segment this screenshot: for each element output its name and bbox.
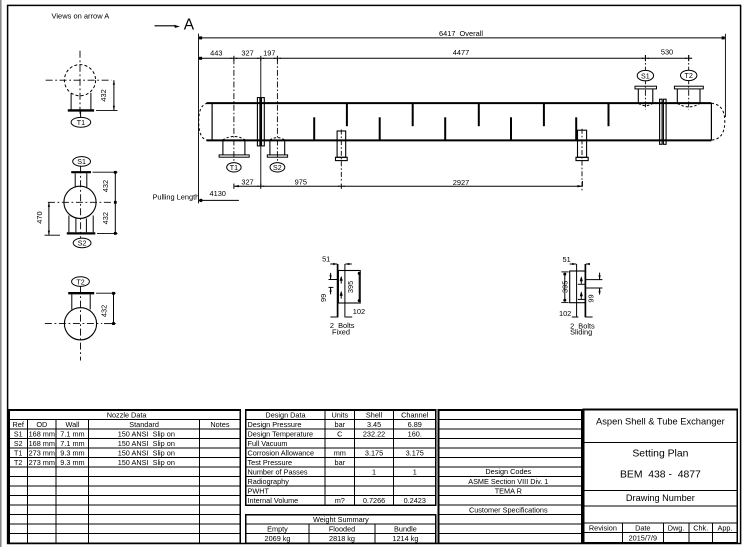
view T1: balloon [71, 117, 91, 127]
nozzle T2 penetration dashed arc [678, 103, 700, 107]
view T2: vertical centerline [80, 287, 82, 361]
sliding support detail: dim 51 [570, 263, 577, 265]
svg-text:Weight Summary: Weight Summary [313, 515, 369, 524]
nozzle T1 neck [222, 140, 224, 155]
svg-text:150 ANSI Slip on: 150 ANSI Slip on [118, 439, 175, 448]
svg-text:Chk.: Chk. [693, 523, 708, 532]
girth flange pair rear [660, 99, 663, 144]
view S1S2: circle [64, 186, 96, 218]
svg-text:ASME Section VIII Div. 1: ASME Section VIII Div. 1 [468, 477, 548, 486]
left channel head dashed arc [199, 103, 208, 140]
nozzle S1 flange plate [635, 86, 657, 89]
chain ticks [233, 56, 235, 61]
sliding support detail: dim 395 [564, 274, 566, 300]
view arrow A head [174, 25, 180, 28]
svg-text:Ref: Ref [13, 420, 25, 429]
svg-text:102: 102 [559, 309, 571, 318]
svg-text:99: 99 [587, 294, 596, 302]
view T1: vertical centerline [79, 51, 81, 116]
sliding saddle centerline [581, 129, 583, 192]
view T1: flange face (thick) [68, 109, 94, 111]
view S1S2: S1 balloon [73, 157, 91, 167]
svg-text:Number of Passes: Number of Passes [248, 467, 308, 476]
fixed support detail: dim 51 [330, 263, 337, 265]
svg-text:T1: T1 [77, 119, 85, 127]
view S1S2: S2 flange face (thick) [67, 232, 96, 234]
title block [584, 409, 738, 543]
flange centerline extension (solid) [260, 58, 262, 186]
svg-text:mm: mm [334, 448, 346, 457]
view T1: flange extension dash [96, 109, 118, 111]
svg-text:S2: S2 [14, 440, 23, 448]
svg-text:Design Temperature: Design Temperature [248, 429, 314, 438]
view T2: dim 432 line [113, 293, 115, 323]
sliding support detail: dim 99 marks [586, 279, 602, 281]
svg-text:2015/7/9: 2015/7/9 [629, 534, 657, 543]
svg-text:51: 51 [562, 255, 570, 264]
svg-text:3.175: 3.175 [365, 448, 383, 457]
nozzle T1 label balloon [227, 163, 241, 172]
svg-text:PWHT: PWHT [248, 486, 270, 495]
bottom chain right end tick [581, 181, 583, 187]
svg-text:4130: 4130 [209, 189, 225, 198]
svg-text:168 mm: 168 mm [29, 439, 55, 448]
svg-text:Internal Volume: Internal Volume [248, 496, 299, 505]
svg-text:S2: S2 [273, 164, 282, 172]
svg-text:Dwg.: Dwg. [668, 523, 685, 532]
nozzle S2 neck [269, 140, 271, 155]
dim 6417 Overall line [199, 37, 726, 39]
chain tick arrows [231, 58, 693, 59]
svg-text:C: C [337, 429, 342, 438]
svg-text:432: 432 [99, 89, 108, 101]
svg-text:2927: 2927 [453, 178, 469, 187]
svg-text:S1: S1 [14, 430, 23, 438]
view S1S2: S2 outer neck lines [68, 216, 70, 233]
bottom dim chain line (327/975/2927) [234, 185, 583, 187]
nozzle S1 penetration dashed arc [639, 103, 653, 105]
sliding support detail: web line (thick) [584, 264, 586, 317]
fixed support detail: dim 99 marks [329, 279, 338, 281]
svg-text:Date: Date [635, 523, 650, 532]
svg-text:7.1 mm: 7.1 mm [60, 439, 84, 448]
design data table [246, 410, 436, 505]
svg-text:197: 197 [263, 49, 275, 58]
view T1: dim 432 line [113, 80, 115, 110]
view T1: stem to balloon [80, 112, 82, 118]
nozzle T1 flange plate [219, 155, 249, 157]
fixed support detail: base plate rectangle [338, 271, 360, 304]
fixed support detail: bolt arrows [340, 277, 342, 283]
svg-text:Units: Units [331, 410, 348, 419]
dim chain line (443/327/197/4477/530) [199, 57, 692, 59]
nozzle data table [9, 410, 240, 543]
view T1: dashed circle [64, 65, 95, 96]
fixed support detail: web line (thick) [337, 264, 339, 317]
sliding support detail: bolt slots [580, 278, 582, 284]
svg-text:470: 470 [35, 211, 44, 223]
view T2: circle [64, 308, 96, 340]
svg-text:6.89: 6.89 [408, 420, 422, 429]
svg-text:Corrosion Allowance: Corrosion Allowance [248, 448, 315, 457]
svg-text:3.45: 3.45 [367, 420, 381, 429]
svg-text:S2: S2 [78, 240, 87, 248]
fixed support detail: dim 102 + feet [330, 316, 337, 318]
svg-text:Flooded: Flooded [329, 524, 355, 533]
svg-text:Pulling Length: Pulling Length [152, 193, 199, 202]
sliding saddle base plate [576, 157, 588, 160]
view S1S2: vertical centerline [80, 166, 82, 238]
svg-text:Radiography: Radiography [248, 477, 290, 486]
view S1S2: horizontal centerline [48, 201, 112, 203]
svg-text:395: 395 [561, 281, 570, 293]
svg-text:150 ANSI Slip on: 150 ANSI Slip on [118, 429, 175, 438]
dim 6417 end dots [199, 36, 202, 39]
svg-text:A: A [184, 16, 195, 33]
svg-text:1: 1 [413, 467, 417, 476]
baffles rising from bottom [314, 117, 576, 139]
sliding support detail: second line [576, 264, 578, 317]
view T1: nozzle neck lines [70, 93, 72, 109]
svg-text:432: 432 [101, 212, 110, 224]
svg-text:9.3 mm: 9.3 mm [60, 458, 84, 467]
view T2: neck lines [71, 295, 73, 310]
vessel shell bottom line [207, 139, 712, 141]
svg-text:Channel: Channel [401, 410, 429, 419]
svg-text:OD: OD [36, 420, 47, 429]
svg-text:BEM 438 - 4877: BEM 438 - 4877 [620, 470, 701, 481]
svg-text:TEMA R: TEMA R [495, 486, 522, 495]
svg-text:T1: T1 [14, 449, 22, 457]
design codes / customer spec table [439, 410, 582, 543]
bottom chain left arrow [234, 185, 239, 187]
svg-text:T2: T2 [14, 459, 22, 467]
svg-text:bar: bar [335, 420, 346, 429]
nozzle S1 neck [637, 89, 639, 103]
svg-text:51: 51 [322, 254, 330, 263]
nozzle T2 neck [676, 89, 678, 103]
left head tangent seam [211, 103, 213, 140]
svg-text:Design Pressure: Design Pressure [248, 420, 302, 429]
right rear head dashed arc [711, 103, 724, 140]
nozzle T2 label balloon [681, 70, 697, 80]
svg-text:Wall: Wall [65, 420, 79, 429]
svg-text:Setting Plan: Setting Plan [632, 449, 688, 460]
svg-text:Aspen Shell & Tube Exchanger: Aspen Shell & Tube Exchanger [596, 417, 725, 427]
svg-text:S1: S1 [77, 158, 86, 166]
fixed saddle base plate [336, 157, 348, 160]
view S1S2: S2 balloon [73, 238, 91, 248]
right head tangent seam [710, 103, 712, 140]
screen edge artifact [0, 0, 2, 547]
fixed support detail: second line [344, 264, 346, 317]
svg-text:160.: 160. [408, 429, 422, 438]
svg-text:Design Codes: Design Codes [485, 467, 531, 476]
svg-text:150 ANSI Slip on: 150 ANSI Slip on [118, 458, 175, 467]
nozzle S1 centerline [644, 55, 646, 110]
svg-text:168 mm: 168 mm [29, 429, 55, 438]
baffles hanging from top [347, 104, 609, 126]
view S1S2: dim 470 line [48, 202, 50, 235]
nozzle S2 label balloon [270, 163, 285, 172]
svg-text:Standard: Standard [129, 420, 159, 429]
svg-text:327: 327 [241, 178, 253, 187]
svg-text:App.: App. [717, 523, 732, 532]
svg-text:102: 102 [353, 307, 365, 316]
view T1: horizontal centerline [46, 79, 112, 81]
sliding support detail: base plate rectangle [570, 271, 586, 303]
svg-text:Revision: Revision [589, 523, 617, 532]
view T2: horizontal centerline [45, 323, 102, 325]
svg-text:7.1 mm: 7.1 mm [60, 429, 84, 438]
svg-text:443: 443 [210, 49, 222, 58]
right overall extension line [724, 34, 726, 117]
svg-text:Bundle: Bundle [394, 524, 417, 533]
svg-text:327: 327 [241, 49, 253, 58]
left overall extension line [198, 34, 200, 204]
view S1S2: S1 neck lines [74, 173, 76, 187]
fixed saddle body [337, 131, 346, 157]
svg-text:150 ANSI Slip on: 150 ANSI Slip on [118, 448, 175, 457]
svg-text:232.22: 232.22 [363, 429, 385, 438]
nozzle S2 penetration dashed arc [270, 138, 285, 140]
vessel shell top line [207, 102, 712, 104]
pulling length dot [199, 199, 202, 202]
svg-text:Empty: Empty [267, 524, 288, 533]
svg-text:1: 1 [372, 467, 376, 476]
svg-text:432: 432 [100, 305, 109, 317]
svg-text:99: 99 [319, 294, 328, 302]
svg-text:bar: bar [335, 458, 346, 467]
svg-text:0.2423: 0.2423 [404, 496, 426, 505]
svg-text:Customer Specifications: Customer Specifications [469, 505, 548, 514]
svg-text:Test Pressure: Test Pressure [248, 458, 293, 467]
svg-text:Fixed: Fixed [332, 327, 350, 336]
fixed saddle centerline [340, 130, 342, 182]
svg-text:m?: m? [335, 496, 345, 505]
view S1S2: S1 flange face (thick) [71, 171, 91, 173]
view T2: balloon [72, 277, 90, 287]
svg-text:9.3 mm: 9.3 mm [60, 448, 84, 457]
svg-text:Drawing Number: Drawing Number [626, 493, 695, 503]
svg-text:975: 975 [295, 177, 307, 186]
svg-text:Views on arrow A: Views on arrow A [52, 12, 110, 21]
svg-text:3.175: 3.175 [406, 448, 424, 457]
nozzle S1 label balloon [637, 70, 653, 80]
nozzle S2 flange plate [267, 155, 287, 157]
sliding support detail: feet [572, 316, 579, 318]
nozzle S2 centerline [276, 58, 278, 162]
pulling length dim line [199, 199, 239, 201]
svg-text:S1: S1 [641, 72, 650, 80]
svg-text:Notes: Notes [210, 420, 229, 429]
fixed support detail: dim 395 [358, 273, 360, 300]
nozzle T1 centerline [233, 58, 235, 162]
svg-text:Design Data: Design Data [265, 410, 306, 419]
nozzle T2 flange plate [674, 86, 703, 89]
svg-text:Full Vacuum: Full Vacuum [248, 439, 288, 448]
svg-text:530: 530 [661, 48, 673, 57]
svg-text:2818 kg: 2818 kg [329, 534, 355, 543]
svg-text:T2: T2 [76, 278, 84, 286]
svg-text:4477: 4477 [453, 48, 469, 57]
svg-text:Sliding: Sliding [570, 328, 592, 337]
svg-text:273 mm: 273 mm [29, 458, 55, 467]
view T2: flange face (thick) [68, 292, 94, 294]
nozzle T1 penetration dashed arc [223, 136, 246, 140]
svg-text:Nozzle Data: Nozzle Data [107, 410, 148, 419]
svg-text:432: 432 [101, 180, 110, 192]
nozzle T2 centerline [688, 55, 690, 110]
svg-text:6417 Overall: 6417 Overall [439, 29, 483, 38]
sliding saddle body [578, 130, 587, 157]
svg-text:395: 395 [346, 281, 355, 293]
svg-text:T1: T1 [230, 164, 238, 172]
svg-text:2069 kg: 2069 kg [265, 534, 291, 543]
svg-text:T2: T2 [685, 72, 693, 80]
view S1S2: dim 432 bottom line [114, 202, 116, 233]
svg-text:0.7266: 0.7266 [363, 496, 385, 505]
view S1S2: S2 inner neck lines [75, 219, 77, 233]
svg-text:Shell: Shell [366, 410, 383, 419]
weight summary table [246, 515, 436, 544]
girth flange pair front [257, 98, 260, 146]
svg-text:1214 kg: 1214 kg [392, 534, 418, 543]
svg-text:273 mm: 273 mm [29, 448, 55, 457]
view arrow A line [155, 25, 176, 27]
view S1S2: dim 432 top line [114, 172, 116, 202]
